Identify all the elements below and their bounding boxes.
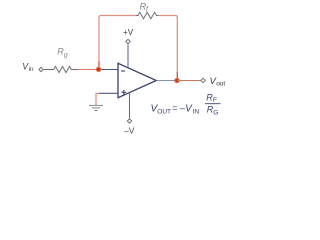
svg-text:F: F (213, 97, 217, 104)
wire +V to op-amp (127, 44, 129, 67)
node output (174, 78, 180, 84)
op-amp U1 triangle (118, 63, 156, 97)
op-amp minus sign (121, 70, 125, 72)
wire darker near junction (98, 61, 100, 67)
resistor Rf (136, 12, 159, 18)
wire Vin to Rg (44, 69, 52, 71)
wire summing node net (red) (78, 69, 99, 71)
svg-text:G: G (213, 109, 218, 116)
resistor Rg (52, 66, 73, 72)
ground (89, 104, 103, 106)
svg-text:–V: –V (179, 104, 194, 115)
svg-text:OUT: OUT (157, 109, 171, 116)
wire junction to op-amp inverting input (99, 69, 119, 71)
wire output node to Vout (177, 80, 201, 82)
svg-text:g: g (64, 52, 68, 59)
wire -V to op-amp (129, 93, 131, 119)
node junction (inverting input) (96, 66, 102, 72)
wire op-amp output to node (156, 80, 177, 82)
wire ground drop (red part) (96, 93, 100, 105)
wire op-amp noninverting input to ground (navy part) (99, 92, 119, 94)
wire Rg to junction (73, 69, 78, 71)
svg-text:–V: –V (124, 126, 135, 135)
wire feedback left vertical (junction to top-left corner) (99, 16, 136, 67)
wire darker near output node (176, 72, 178, 78)
wire feedback top right + right vertical down to output node (159, 16, 178, 79)
svg-text:IN: IN (193, 109, 200, 116)
svg-text:+V: +V (123, 28, 134, 37)
terminal -V (diamond) (127, 119, 131, 123)
svg-text:in: in (29, 66, 34, 73)
svg-text:=: = (172, 103, 177, 113)
op-amp plus sign (122, 91, 127, 93)
terminal Vout (diamond) (201, 78, 206, 83)
terminal +V (diamond) (126, 39, 130, 43)
svg-text:f: f (146, 7, 149, 14)
terminal Vin (diamond) (39, 67, 43, 71)
svg-text:out: out (216, 81, 225, 88)
